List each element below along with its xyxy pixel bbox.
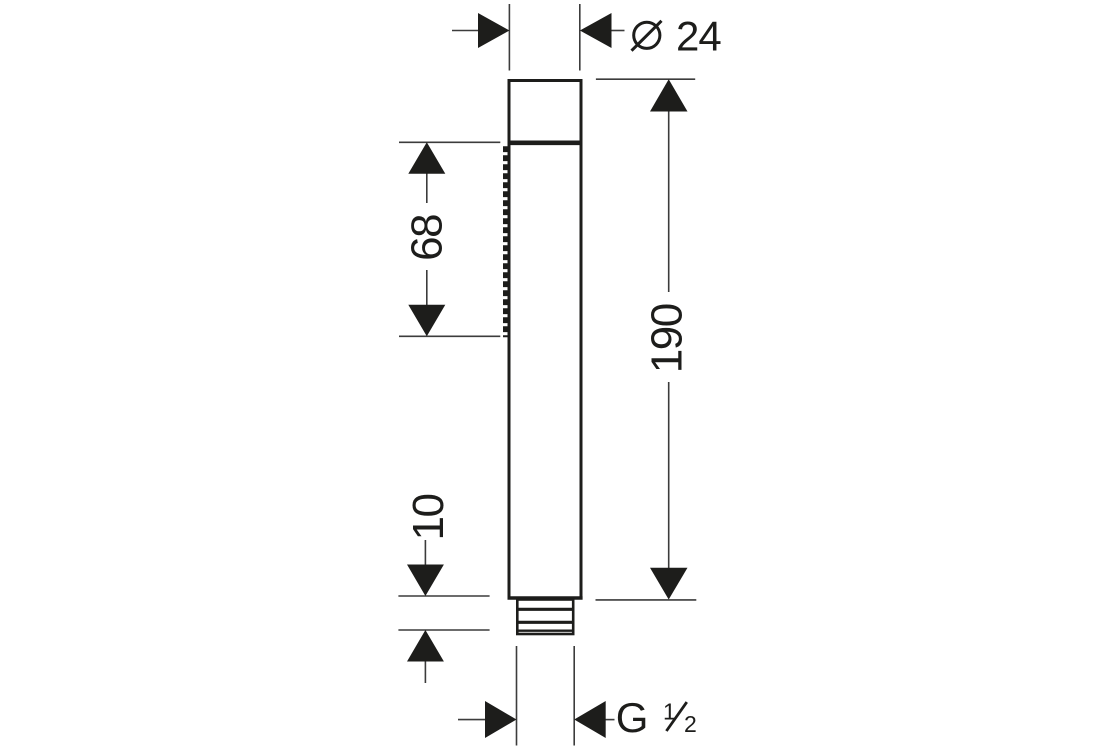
svg-text:10: 10 [404,495,453,541]
svg-text:G: G [616,694,649,741]
svg-text:68: 68 [403,215,452,261]
svg-text:190: 190 [643,304,692,373]
svg-text:2: 2 [684,711,697,737]
svg-text:24: 24 [676,13,721,60]
